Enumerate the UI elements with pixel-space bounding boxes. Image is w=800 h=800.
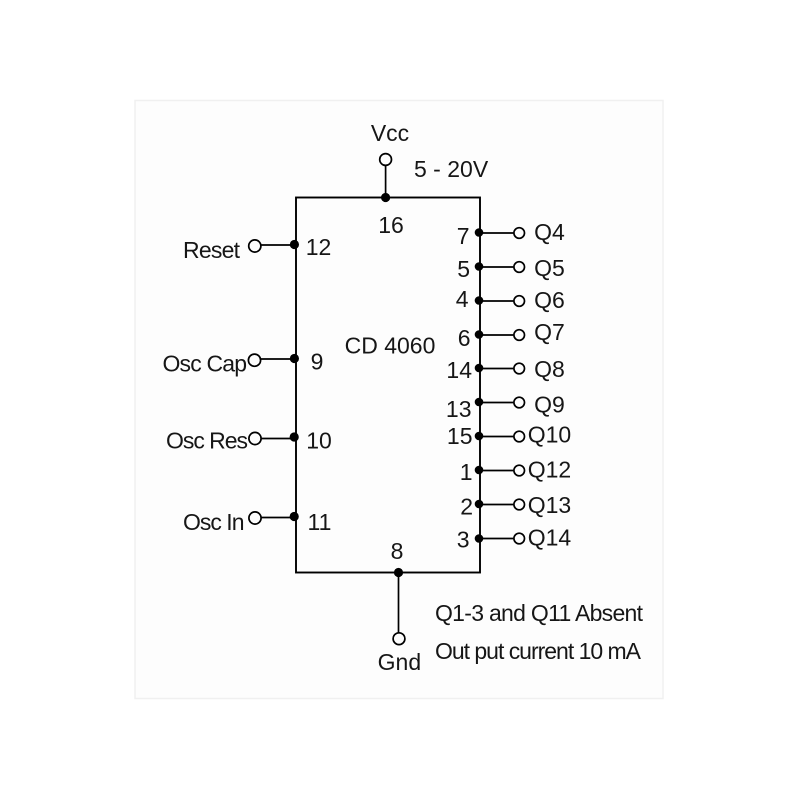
wire pin 8 to Gnd [398,573,400,633]
svg-text:Q9: Q9 [534,392,565,418]
Gnd terminal [378,633,421,675]
svg-text:7: 7 [457,223,470,249]
svg-text:15: 15 [447,423,473,449]
svg-text:Q5: Q5 [534,255,565,281]
svg-text:11: 11 [308,509,332,535]
svg-text:3: 3 [457,527,470,553]
pin 7 output Q4 [457,219,565,249]
svg-text:8: 8 [391,538,404,564]
svg-text:Gnd: Gnd [378,649,421,675]
Vcc supply terminal [371,120,489,182]
IC U1 CD4060 body [296,198,480,573]
svg-text:Q12: Q12 [528,457,571,483]
svg-text:1: 1 [460,459,473,485]
pin 3 output Q14 [457,525,572,553]
svg-text:Out put current 10 mA: Out put current 10 mA [435,638,642,664]
svg-text:5 - 20V: 5 - 20V [414,156,489,182]
svg-text:4: 4 [456,286,469,312]
svg-text:Q14: Q14 [528,525,572,551]
pin 10 Osc Res [166,428,332,454]
pin 9 Osc Cap [163,349,324,377]
svg-text:Q6: Q6 [534,287,565,313]
svg-text:Osc Cap: Osc Cap [163,351,248,377]
svg-text:5: 5 [457,256,470,282]
svg-text:CD 4060: CD 4060 [345,333,436,359]
svg-text:14: 14 [446,357,472,383]
svg-text:10: 10 [306,428,332,454]
pin 5 output Q5 [457,255,565,282]
pin 14 output Q8 [446,356,564,383]
svg-text:Q1-3 and Q11 Absent: Q1-3 and Q11 Absent [435,600,644,626]
junction pin 8 [394,568,403,577]
pin 13 output Q9 [446,392,565,423]
svg-text:Q4: Q4 [534,219,565,245]
svg-text:Q7: Q7 [534,319,565,345]
pin 15 output Q10 [447,422,571,450]
svg-text:16: 16 [378,212,404,238]
svg-text:Osc In: Osc In [183,509,245,535]
svg-text:Osc Res: Osc Res [166,428,248,454]
pin 11 Osc In [183,509,331,535]
pin 12 Reset [183,234,331,263]
svg-text:Reset: Reset [183,237,241,263]
svg-text:13: 13 [446,396,472,422]
svg-text:9: 9 [311,349,324,375]
svg-text:Vcc: Vcc [371,120,409,146]
wire Vcc to pin 16 [385,165,387,197]
svg-text:Q8: Q8 [534,356,565,382]
svg-text:Q13: Q13 [528,492,571,518]
pin 1 output Q12 [460,457,572,486]
junction pin 16 [381,193,390,202]
svg-text:6: 6 [458,325,471,351]
pin 6 output Q7 [458,319,565,351]
pin 2 output Q13 [460,492,571,520]
svg-text:2: 2 [460,494,473,520]
svg-text:Q10: Q10 [528,422,571,448]
svg-text:12: 12 [306,234,332,260]
pin 4 output Q6 [456,286,565,313]
